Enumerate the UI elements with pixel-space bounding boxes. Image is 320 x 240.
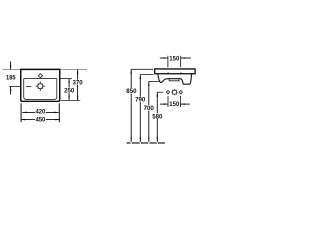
- node fix-hole-right: [179, 91, 182, 94]
- node dim-150-mid: [160, 96, 190, 108]
- node siphon-slot: [169, 79, 179, 81]
- svg-text:185: 185: [6, 74, 16, 81]
- node tap-hole: [38, 74, 42, 78]
- svg-text:370: 370: [73, 80, 84, 87]
- svg-text:150: 150: [169, 55, 179, 62]
- node dim-700: [144, 81, 160, 142]
- node floor: [127, 142, 165, 143]
- node basin-bowl: [24, 79, 57, 100]
- node dim-250: [64, 79, 75, 101]
- svg-text:580: 580: [152, 113, 163, 120]
- wire centerline: [9, 86, 21, 88]
- wire ext-right: [58, 103, 60, 122]
- svg-text:700: 700: [144, 105, 155, 112]
- node dim-370: [72, 69, 83, 100]
- svg-text:420: 420: [35, 109, 45, 116]
- node dim-420: [22, 109, 58, 116]
- wire ext-bottom: [61, 99, 80, 101]
- node dim-580: [152, 92, 163, 142]
- node drain: [36, 81, 46, 91]
- node dim-850: [126, 69, 153, 142]
- wire ext-bowl-top: [60, 78, 72, 80]
- node basin-side-rim: [155, 69, 195, 74]
- node dim-790: [135, 75, 154, 143]
- svg-text:790: 790: [135, 97, 146, 104]
- svg-text:150: 150: [169, 101, 179, 108]
- node basin-outer: [21, 69, 60, 101]
- node dim-185: [6, 61, 16, 94]
- node dim-150-top: [160, 55, 191, 67]
- node basin-side-body: [158, 74, 192, 84]
- node fix-hole-left: [166, 91, 169, 94]
- wire ext-left: [20, 103, 22, 122]
- node rim-hole-right: [180, 73, 182, 75]
- svg-text:850: 850: [126, 88, 137, 95]
- node rim-hole-left: [167, 73, 169, 75]
- node dim-450: [21, 117, 60, 124]
- svg-text:250: 250: [64, 88, 75, 95]
- node wall-drain: [171, 89, 177, 95]
- node shelf-line: [3, 69, 88, 71]
- svg-text:450: 450: [35, 117, 45, 124]
